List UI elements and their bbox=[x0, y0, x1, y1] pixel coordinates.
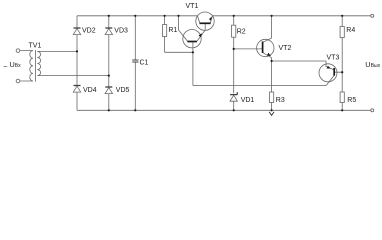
svg-text:VD5: VD5 bbox=[116, 87, 130, 94]
svg-text:UВых: UВых bbox=[365, 60, 380, 69]
svg-text:VD4: VD4 bbox=[83, 87, 97, 94]
svg-text:R4: R4 bbox=[346, 27, 355, 34]
svg-text:VD2: VD2 bbox=[82, 28, 96, 35]
svg-text:VD1: VD1 bbox=[241, 97, 255, 104]
svg-text:~ UВх: ~ UВх bbox=[3, 60, 21, 71]
svg-text:R3: R3 bbox=[276, 97, 285, 104]
svg-text:VT1: VT1 bbox=[186, 3, 199, 10]
svg-text:VT2: VT2 bbox=[279, 45, 292, 52]
svg-text:TV1: TV1 bbox=[29, 43, 42, 50]
svg-text:C1: C1 bbox=[140, 59, 149, 66]
svg-text:R1: R1 bbox=[168, 27, 177, 34]
svg-text:R2: R2 bbox=[237, 28, 246, 35]
svg-text:VD3: VD3 bbox=[114, 28, 128, 35]
svg-text:VT3: VT3 bbox=[327, 55, 340, 62]
svg-text:R5: R5 bbox=[347, 97, 356, 104]
